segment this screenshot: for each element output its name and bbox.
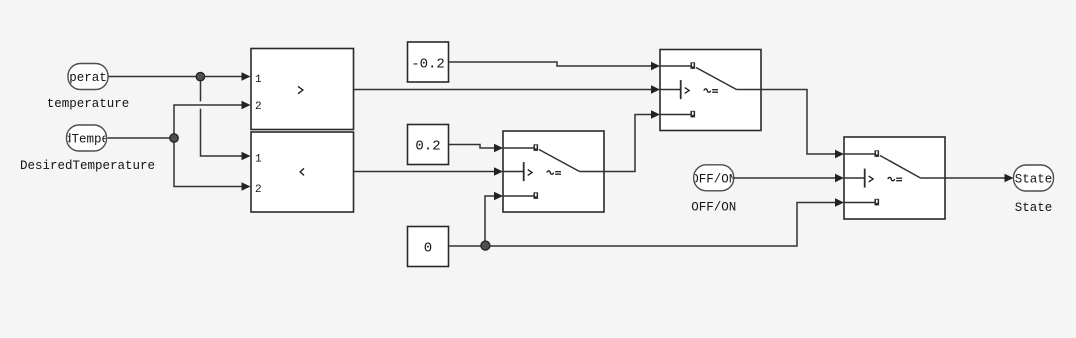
wire constant 0 to Switch2 in3: [485, 203, 836, 247]
svg-text:State: State: [1015, 201, 1053, 215]
junction dot on temperature wire: [196, 72, 204, 80]
wire OFF/ON to Switch2 ctrl: [734, 177, 837, 179]
wire constant -0.2 to Switch1 in1: [449, 62, 653, 66]
block constant -0.2: [408, 42, 449, 82]
svg-text:0: 0: [424, 241, 432, 257]
arrowhead into Switch1 in3: [651, 110, 660, 118]
arrowhead into Switch1 ctrl: [651, 85, 660, 93]
wire constant 0.2 to Switch in1: [449, 145, 496, 149]
wire constant 0 to Switch in3: [485, 196, 495, 246]
arrowhead into Switch in1: [494, 144, 503, 152]
block Switch2 (~=): [844, 137, 945, 219]
wire temperature to Relational Operator in1: [108, 76, 243, 78]
svg-text:2: 2: [255, 184, 262, 196]
arrowhead into Switch2 ctrl: [835, 174, 844, 182]
wire DesiredTemperature to Relational Operator1 in2: [174, 138, 243, 187]
block Relational Operator (>): [251, 49, 354, 130]
block Switch1 (~=): [660, 50, 761, 131]
svg-text:OFF/ON: OFF/ON: [691, 201, 736, 215]
arrowhead into Relational Operator1 in2: [242, 182, 251, 190]
svg-text:-0.2: -0.2: [411, 56, 445, 72]
wire Switch out to Switch1 in3: [604, 115, 652, 172]
arrowhead into Switch in3: [494, 192, 503, 200]
outport State oval: [1014, 165, 1054, 191]
svg-text:temperature: temperature: [47, 97, 130, 111]
svg-text:2: 2: [255, 101, 262, 113]
junction dot on constant 0 wire: [481, 241, 490, 250]
arrowhead into Relational Operator in1: [242, 72, 251, 80]
arrowhead into Switch2 in3: [835, 198, 844, 206]
svg-text:1: 1: [255, 74, 262, 86]
arrowhead into State port: [1005, 174, 1014, 182]
arrowhead into Relational Operator1 in1: [242, 152, 251, 160]
wire branch temperature to Relational Operator1 in1: [201, 77, 244, 157]
wire constant 0 to junction: [449, 245, 486, 247]
wire DesiredTemperature to Relational Operator in2: [174, 105, 243, 138]
svg-text:OFF/ON: OFF/ON: [691, 172, 736, 186]
svg-text:0.2: 0.2: [415, 139, 440, 155]
block constant 0.2: [408, 125, 449, 165]
inport DesiredTemperature oval: [19, 125, 154, 151]
inport temperature oval: [47, 64, 130, 90]
junction dot on DesiredTemperature wire: [170, 134, 178, 142]
svg-text:DesiredTemperature: DesiredTemperature: [20, 159, 155, 173]
wire Switch1 out to Switch2 in1: [761, 90, 836, 155]
arrowhead into Switch1 in1: [651, 62, 660, 70]
wire Relational Operator1 out to Switch ctrl: [354, 171, 496, 173]
arrowhead into Switch2 in1: [835, 150, 844, 158]
wire Relational Operator out to Switch1 ctrl: [354, 89, 653, 91]
svg-text:1: 1: [255, 153, 262, 165]
wire DesiredTemperature to junction: [108, 137, 175, 139]
block Relational Operator1 (<): [251, 132, 354, 212]
block Switch (~=): [503, 131, 604, 212]
arrowhead into Switch ctrl: [494, 167, 503, 175]
block constant 0: [408, 227, 449, 267]
svg-text:State: State: [1015, 173, 1053, 187]
inport OFF/ON oval: [691, 165, 736, 191]
arrowhead into Relational Operator in2: [242, 101, 251, 109]
wire Switch2 out to State: [945, 177, 1005, 179]
